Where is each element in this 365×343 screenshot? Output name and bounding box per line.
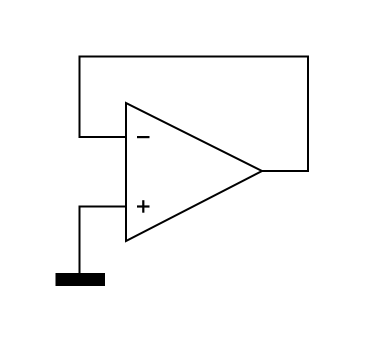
wire feedback top horizontal	[79, 56, 310, 58]
wire inverting input	[79, 136, 127, 138]
wire non-inverting input	[79, 206, 127, 208]
pin label - (inverting input)	[137, 136, 150, 138]
wire output	[262, 170, 309, 172]
wire feedback left vertical	[79, 56, 81, 139]
ground	[56, 273, 106, 286]
wire feedback right vertical	[307, 56, 309, 173]
wire ground drop	[79, 207, 81, 274]
op-amp U1	[126, 103, 262, 241]
pin label + (non-inverting input)	[137, 200, 150, 213]
